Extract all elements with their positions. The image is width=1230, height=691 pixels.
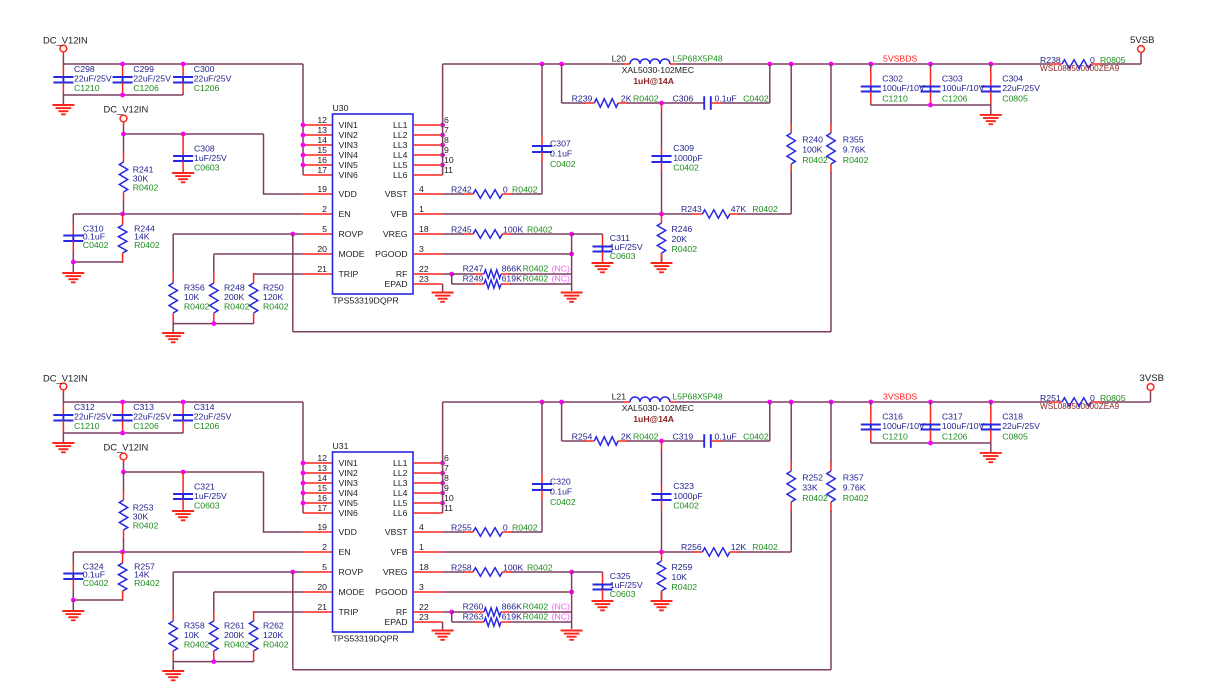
svg-text:1: 1 (419, 542, 424, 552)
svg-text:47K: 47K (731, 204, 747, 214)
svg-text:23: 23 (419, 274, 429, 284)
svg-text:C1206: C1206 (194, 421, 220, 431)
svg-text:200K: 200K (224, 630, 244, 640)
svg-text:L20: L20 (612, 54, 627, 64)
svg-text:C1210: C1210 (74, 83, 100, 93)
svg-text:TPS53319DQPR: TPS53319DQPR (333, 296, 399, 306)
svg-text:R0402: R0402 (527, 225, 553, 235)
svg-text:C319: C319 (673, 432, 694, 442)
svg-text:R262: R262 (263, 620, 284, 630)
svg-text:XAL5030-102MEC: XAL5030-102MEC (622, 403, 694, 413)
svg-text:2K: 2K (621, 94, 632, 104)
svg-text:R0402: R0402 (843, 493, 869, 503)
svg-text:0.1uF: 0.1uF (715, 94, 737, 104)
svg-text:1uF/25V: 1uF/25V (194, 153, 227, 163)
svg-text:R356: R356 (184, 282, 205, 292)
svg-text:R0402: R0402 (263, 639, 289, 649)
svg-text:R0402: R0402 (134, 578, 160, 588)
svg-text:22uF/25V: 22uF/25V (74, 411, 112, 421)
svg-text:XAL5030-102MEC: XAL5030-102MEC (622, 65, 694, 75)
svg-text:R255: R255 (451, 523, 472, 533)
svg-text:DC_V12IN: DC_V12IN (104, 442, 149, 453)
svg-text:23: 23 (419, 612, 429, 622)
svg-text:R243: R243 (681, 204, 702, 214)
svg-text:LL6: LL6 (393, 508, 408, 518)
svg-text:R247: R247 (463, 264, 484, 274)
svg-text:VIN3: VIN3 (339, 140, 358, 150)
svg-text:33K: 33K (802, 483, 818, 493)
svg-text:21: 21 (317, 264, 327, 274)
svg-text:R358: R358 (184, 620, 205, 630)
svg-text:L5P68X5P48: L5P68X5P48 (673, 54, 723, 64)
svg-text:120K: 120K (263, 292, 283, 302)
svg-text:10K: 10K (672, 572, 688, 582)
svg-text:R0402: R0402 (672, 244, 698, 254)
svg-text:200K: 200K (224, 292, 244, 302)
svg-text:17: 17 (317, 503, 327, 513)
svg-text:C0402: C0402 (83, 578, 109, 588)
svg-text:8: 8 (444, 473, 449, 483)
svg-text:R240: R240 (802, 135, 823, 145)
svg-text:C317: C317 (942, 412, 963, 422)
svg-text:R0402: R0402 (224, 639, 250, 649)
svg-text:VIN2: VIN2 (339, 130, 358, 140)
svg-text:9.76K: 9.76K (843, 145, 866, 155)
svg-text:PGOOD: PGOOD (375, 249, 407, 259)
svg-text:TRIP: TRIP (339, 269, 359, 279)
svg-text:1uH@14A: 1uH@14A (633, 414, 675, 424)
svg-text:EPAD: EPAD (384, 617, 407, 627)
svg-text:VIN4: VIN4 (339, 150, 358, 160)
svg-text:14: 14 (317, 473, 327, 483)
svg-text:R0402: R0402 (184, 639, 210, 649)
svg-text:0: 0 (503, 523, 508, 533)
svg-text:R242: R242 (451, 185, 472, 195)
svg-text:R259: R259 (672, 562, 693, 572)
svg-text:RF: RF (396, 269, 408, 279)
svg-text:C1206: C1206 (133, 83, 159, 93)
svg-text:R258: R258 (451, 563, 472, 573)
svg-text:13: 13 (317, 125, 327, 135)
svg-text:19: 19 (317, 522, 327, 532)
svg-text:EN: EN (339, 547, 351, 557)
svg-text:1uH@14A: 1uH@14A (633, 76, 675, 86)
svg-text:100uF/10V: 100uF/10V (882, 83, 925, 93)
svg-text:C308: C308 (194, 144, 215, 154)
svg-text:C1206: C1206 (194, 83, 220, 93)
svg-text:VIN3: VIN3 (339, 478, 358, 488)
svg-text:MODE: MODE (339, 587, 365, 597)
svg-text:LL2: LL2 (393, 130, 408, 140)
svg-text:R0402: R0402 (802, 493, 828, 503)
svg-text:C316: C316 (882, 412, 903, 422)
svg-text:C309: C309 (673, 143, 694, 153)
svg-text:WSL080500000ZEA9: WSL080500000ZEA9 (1040, 402, 1120, 411)
svg-text:9: 9 (444, 145, 449, 155)
svg-text:22: 22 (419, 264, 429, 274)
svg-text:22uF/25V: 22uF/25V (74, 73, 112, 83)
svg-text:C1206: C1206 (133, 421, 159, 431)
svg-text:RF: RF (396, 607, 408, 617)
svg-text:VDD: VDD (339, 527, 357, 537)
svg-text:9: 9 (444, 483, 449, 493)
svg-text:R0402: R0402 (523, 602, 549, 612)
svg-text:R252: R252 (802, 473, 823, 483)
svg-text:L5P68X5P48: L5P68X5P48 (673, 392, 723, 402)
svg-text:C304: C304 (1002, 74, 1023, 84)
svg-text:2K: 2K (621, 432, 632, 442)
svg-text:C0402: C0402 (743, 94, 769, 104)
svg-text:22uF/25V: 22uF/25V (1002, 83, 1040, 93)
svg-text:11: 11 (444, 165, 453, 175)
svg-text:VIN5: VIN5 (339, 498, 358, 508)
svg-text:11: 11 (444, 503, 453, 513)
svg-text:5VSBDS: 5VSBDS (883, 54, 917, 64)
svg-text:100uF/10V: 100uF/10V (882, 421, 925, 431)
svg-text:R256: R256 (681, 542, 702, 552)
svg-text:R0402: R0402 (633, 94, 659, 104)
svg-text:LL2: LL2 (393, 468, 408, 478)
svg-text:DC_V12IN: DC_V12IN (43, 373, 88, 384)
svg-text:C0402: C0402 (550, 497, 576, 507)
svg-text:MODE: MODE (339, 249, 365, 259)
svg-text:(NC): (NC) (552, 264, 570, 274)
svg-text:22uF/25V: 22uF/25V (133, 411, 171, 421)
svg-text:0.1uF: 0.1uF (550, 149, 572, 159)
svg-text:VIN1: VIN1 (339, 120, 358, 130)
svg-text:R260: R260 (463, 602, 484, 612)
svg-text:ROVP: ROVP (339, 567, 364, 577)
svg-text:22uF/25V: 22uF/25V (194, 411, 232, 421)
svg-text:22uF/25V: 22uF/25V (194, 73, 232, 83)
svg-text:R0402: R0402 (523, 274, 549, 284)
svg-text:R0402: R0402 (843, 155, 869, 165)
svg-text:R249: R249 (463, 274, 484, 284)
svg-text:VIN6: VIN6 (339, 170, 358, 180)
svg-text:1: 1 (419, 204, 424, 214)
svg-text:LL3: LL3 (393, 478, 408, 488)
svg-text:C1206: C1206 (942, 94, 968, 104)
svg-text:(NC): (NC) (552, 274, 570, 284)
svg-text:4: 4 (419, 184, 424, 194)
svg-text:L21: L21 (612, 392, 627, 402)
svg-text:0.1uF: 0.1uF (715, 432, 737, 442)
svg-text:LL6: LL6 (393, 170, 408, 180)
svg-text:619K: 619K (502, 612, 522, 622)
svg-text:(NC): (NC) (552, 612, 570, 622)
svg-text:VREG: VREG (383, 229, 408, 239)
svg-text:4: 4 (419, 522, 424, 532)
svg-text:20: 20 (317, 244, 327, 254)
svg-text:C0402: C0402 (743, 432, 769, 442)
svg-text:6: 6 (444, 115, 449, 125)
svg-text:R239: R239 (572, 94, 593, 104)
svg-text:C1206: C1206 (942, 432, 968, 442)
svg-text:C0603: C0603 (194, 163, 220, 173)
svg-text:2: 2 (322, 542, 327, 552)
svg-text:10K: 10K (184, 292, 200, 302)
svg-text:R250: R250 (263, 282, 284, 292)
svg-text:9.76K: 9.76K (843, 483, 866, 493)
svg-text:R0402: R0402 (633, 432, 659, 442)
svg-text:5: 5 (322, 562, 327, 572)
svg-text:LL5: LL5 (393, 160, 408, 170)
svg-text:5VSB: 5VSB (1130, 35, 1155, 46)
svg-text:TRIP: TRIP (339, 607, 359, 617)
svg-text:3: 3 (419, 244, 424, 254)
svg-text:LL4: LL4 (393, 488, 408, 498)
svg-text:C0402: C0402 (550, 159, 576, 169)
svg-text:12K: 12K (731, 542, 747, 552)
svg-text:C0402: C0402 (673, 500, 699, 510)
svg-text:16: 16 (317, 155, 327, 165)
svg-text:DC_V12IN: DC_V12IN (104, 104, 149, 115)
svg-text:C0805: C0805 (1002, 94, 1028, 104)
svg-text:3: 3 (419, 582, 424, 592)
svg-text:VIN2: VIN2 (339, 468, 358, 478)
svg-text:R0402: R0402 (512, 185, 538, 195)
svg-text:20: 20 (317, 582, 327, 592)
svg-text:VIN5: VIN5 (339, 160, 358, 170)
svg-text:U30: U30 (333, 103, 349, 113)
svg-text:C318: C318 (1002, 412, 1023, 422)
svg-text:R254: R254 (572, 432, 593, 442)
svg-text:6: 6 (444, 453, 449, 463)
svg-text:R355: R355 (843, 135, 864, 145)
svg-text:R0402: R0402 (133, 521, 159, 531)
svg-text:R248: R248 (224, 282, 245, 292)
svg-text:PGOOD: PGOOD (375, 587, 407, 597)
svg-text:10K: 10K (184, 630, 200, 640)
svg-text:LL5: LL5 (393, 498, 408, 508)
svg-text:EN: EN (339, 209, 351, 219)
svg-text:C320: C320 (550, 477, 571, 487)
svg-text:20K: 20K (672, 234, 688, 244)
svg-text:VREG: VREG (383, 567, 408, 577)
svg-text:C321: C321 (194, 482, 215, 492)
svg-text:R0402: R0402 (527, 563, 553, 573)
svg-text:18: 18 (419, 562, 429, 572)
svg-text:R0402: R0402 (184, 301, 210, 311)
svg-text:3VSB: 3VSB (1140, 373, 1165, 384)
svg-text:17: 17 (317, 165, 327, 175)
svg-text:LL3: LL3 (393, 140, 408, 150)
svg-text:ROVP: ROVP (339, 229, 364, 239)
svg-text:2: 2 (322, 204, 327, 214)
svg-text:VBST: VBST (385, 527, 408, 537)
svg-text:C0805: C0805 (1002, 432, 1028, 442)
svg-text:10: 10 (444, 493, 454, 503)
svg-text:R0402: R0402 (752, 542, 778, 552)
svg-text:C1210: C1210 (882, 432, 908, 442)
svg-text:C306: C306 (673, 94, 694, 104)
svg-text:C0603: C0603 (610, 251, 636, 261)
svg-text:R0402: R0402 (134, 240, 160, 250)
svg-text:VIN4: VIN4 (339, 488, 358, 498)
svg-text:3VSBDS: 3VSBDS (883, 392, 917, 402)
svg-text:LL1: LL1 (393, 458, 408, 468)
svg-text:WSL080500000ZEA9: WSL080500000ZEA9 (1040, 64, 1120, 73)
svg-text:22: 22 (419, 602, 429, 612)
svg-text:LL1: LL1 (393, 120, 408, 130)
svg-text:14: 14 (317, 135, 327, 145)
svg-text:100uF/10V: 100uF/10V (942, 421, 985, 431)
svg-text:R261: R261 (224, 620, 245, 630)
svg-text:18: 18 (419, 224, 429, 234)
svg-text:12: 12 (317, 115, 327, 125)
svg-text:VDD: VDD (339, 189, 357, 199)
svg-text:VFB: VFB (391, 547, 408, 557)
svg-text:R0402: R0402 (672, 582, 698, 592)
svg-text:R0402: R0402 (512, 523, 538, 533)
svg-text:C302: C302 (882, 74, 903, 84)
svg-text:7: 7 (444, 125, 449, 135)
svg-text:C0402: C0402 (673, 162, 699, 172)
svg-text:R0402: R0402 (224, 301, 250, 311)
svg-text:DC_V12IN: DC_V12IN (43, 35, 88, 46)
svg-text:R0402: R0402 (752, 204, 778, 214)
svg-text:C1210: C1210 (74, 421, 100, 431)
svg-text:C303: C303 (942, 74, 963, 84)
svg-text:R0402: R0402 (523, 612, 549, 622)
svg-text:(NC): (NC) (552, 602, 570, 612)
svg-text:7: 7 (444, 463, 449, 473)
svg-text:R245: R245 (451, 225, 472, 235)
svg-text:LL4: LL4 (393, 150, 408, 160)
svg-text:12: 12 (317, 453, 327, 463)
svg-text:19: 19 (317, 184, 327, 194)
svg-text:R0402: R0402 (133, 183, 159, 193)
svg-text:100K: 100K (802, 145, 822, 155)
svg-text:1uF/25V: 1uF/25V (194, 491, 227, 501)
svg-text:VIN6: VIN6 (339, 508, 358, 518)
svg-text:866K: 866K (502, 264, 522, 274)
svg-text:C1210: C1210 (882, 94, 908, 104)
svg-text:C323: C323 (673, 481, 694, 491)
svg-text:VBST: VBST (385, 189, 408, 199)
svg-text:EPAD: EPAD (384, 279, 407, 289)
svg-text:U31: U31 (333, 441, 349, 451)
svg-text:8: 8 (444, 135, 449, 145)
svg-text:VFB: VFB (391, 209, 408, 219)
svg-text:16: 16 (317, 493, 327, 503)
svg-text:619K: 619K (502, 274, 522, 284)
svg-text:15: 15 (317, 483, 327, 493)
svg-text:C0603: C0603 (194, 501, 220, 511)
svg-text:R263: R263 (463, 612, 484, 622)
svg-text:22uF/25V: 22uF/25V (133, 73, 171, 83)
svg-text:C0603: C0603 (610, 589, 636, 599)
svg-text:120K: 120K (263, 630, 283, 640)
svg-text:0: 0 (503, 185, 508, 195)
svg-text:R0402: R0402 (802, 155, 828, 165)
svg-text:R0402: R0402 (523, 264, 549, 274)
svg-text:15: 15 (317, 145, 327, 155)
svg-text:R246: R246 (672, 224, 693, 234)
svg-text:5: 5 (322, 224, 327, 234)
svg-text:21: 21 (317, 602, 327, 612)
svg-text:TPS53319DQPR: TPS53319DQPR (333, 634, 399, 644)
svg-text:22uF/25V: 22uF/25V (1002, 421, 1040, 431)
svg-text:100K: 100K (503, 225, 523, 235)
svg-text:R357: R357 (843, 473, 864, 483)
svg-text:VIN1: VIN1 (339, 458, 358, 468)
svg-text:13: 13 (317, 463, 327, 473)
svg-text:R0402: R0402 (263, 301, 289, 311)
svg-text:0.1uF: 0.1uF (550, 487, 572, 497)
svg-text:100uF/10V: 100uF/10V (942, 83, 985, 93)
svg-text:10: 10 (444, 155, 454, 165)
svg-text:C0402: C0402 (83, 240, 109, 250)
svg-text:C307: C307 (550, 139, 571, 149)
svg-text:100K: 100K (503, 563, 523, 573)
svg-text:866K: 866K (502, 602, 522, 612)
